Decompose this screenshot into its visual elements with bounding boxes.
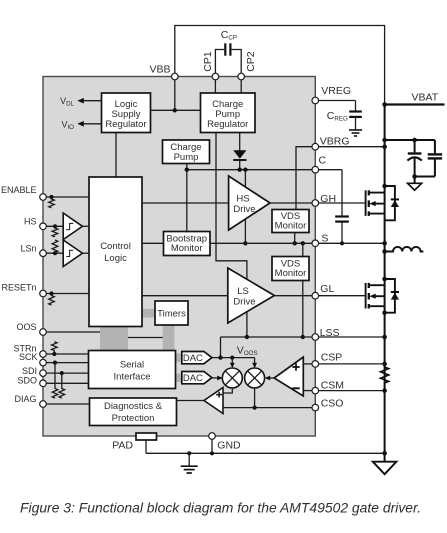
pin DIAG — [40, 401, 47, 408]
buffer HS — [63, 213, 82, 240]
svg-text:Control: Control — [100, 241, 131, 252]
svg-text:C: C — [319, 154, 327, 166]
pin OOS — [40, 329, 47, 336]
svg-text:Timers: Timers — [157, 309, 186, 320]
svg-text:Monitor: Monitor — [275, 268, 307, 279]
wire buffer HS to control logic — [83, 225, 90, 227]
pin SCK — [40, 359, 47, 366]
svg-text:CP2: CP2 — [245, 51, 257, 72]
pin LSS — [312, 334, 319, 341]
wire A1 plus input — [303, 363, 312, 365]
wire SDI — [46, 371, 88, 375]
mixer M2 — [245, 368, 265, 388]
DAC D2 — [182, 372, 212, 385]
pin C — [312, 166, 319, 173]
buffer LSn — [63, 240, 82, 267]
wire VDS-monitor1 to S — [294, 233, 296, 244]
wire HS drive to GH — [270, 202, 312, 204]
wire VBRG external — [319, 144, 387, 149]
wire LSn input — [46, 251, 63, 255]
svg-text:LSn: LSn — [20, 243, 36, 253]
wire VBB internal — [151, 80, 201, 113]
pin LSn — [40, 250, 47, 257]
svg-text:DAC: DAC — [183, 353, 203, 364]
svg-text:CSO: CSO — [321, 398, 344, 410]
pin GL — [312, 292, 319, 299]
svg-text:Regulator: Regulator — [207, 119, 248, 130]
wire mixer2 out — [254, 388, 256, 408]
box VDS monitor 1 — [272, 210, 309, 233]
wire CSP external — [319, 362, 387, 367]
inductor L1 — [382, 247, 423, 254]
svg-text:Monitor: Monitor — [275, 221, 307, 232]
wire LSS external — [319, 335, 387, 340]
svg-text:CSP: CSP — [321, 352, 343, 364]
wire buffer LSn to control logic — [83, 252, 90, 254]
pin CSP — [312, 361, 319, 368]
pin CSO — [312, 404, 319, 411]
wire bulk caps top — [382, 138, 435, 143]
transistor Q2 LS MOSFET — [366, 277, 387, 315]
ground main — [373, 453, 397, 474]
wire A2 out to diagnostics — [177, 400, 205, 402]
wire ENABLE — [46, 195, 89, 199]
wire C node line — [185, 164, 313, 172]
ground CREG — [349, 130, 362, 136]
transistor Q1 HS MOSFET — [366, 184, 387, 216]
svg-text:VBRG: VBRG — [320, 136, 350, 148]
box timers — [155, 301, 188, 325]
pin HS — [40, 223, 47, 230]
svg-text:Logic: Logic — [104, 253, 127, 264]
pin CP2 — [238, 73, 245, 80]
pin GH — [312, 200, 319, 207]
svg-text:Monitor: Monitor — [171, 243, 203, 254]
svg-text:ENABLE: ENABLE — [1, 185, 37, 195]
wire VOOS to mixer1 — [230, 358, 235, 369]
resistor ENABLE pull — [49, 197, 55, 208]
svg-text:OOS: OOS — [16, 322, 36, 332]
svg-text:Diagnostics &: Diagnostics & — [104, 401, 163, 412]
svg-text:PAD: PAD — [112, 439, 133, 451]
pin S — [312, 240, 319, 247]
svg-text:Protection: Protection — [112, 413, 155, 424]
wire LSS node internal — [221, 336, 313, 338]
wire charge-pump to bootstrap-monitor — [186, 170, 188, 232]
wire VBB top loop — [175, 26, 385, 105]
pin RESETn — [40, 290, 47, 297]
wire control-logic to HS drive — [142, 202, 229, 204]
wire A1 minus input — [303, 390, 312, 392]
capacitor bulk ceramic — [428, 140, 442, 177]
wire CP1 internal — [214, 80, 216, 93]
wire S node internal — [210, 241, 312, 245]
wire HS drive top supply stub — [244, 170, 246, 188]
wire charge-pump-reg to LS drive supply — [216, 133, 247, 280]
svg-text:GND: GND — [217, 440, 241, 452]
DAC D1 — [182, 352, 212, 365]
wire C external — [319, 169, 342, 171]
bus control-logic to timers — [142, 309, 155, 318]
ground bulk caps — [408, 177, 422, 191]
PAD slug — [136, 433, 157, 440]
wire LS drive bottom stub — [245, 312, 249, 339]
wire HS drive bottom stub — [243, 219, 247, 246]
pin SDI — [40, 370, 47, 377]
resistor STRn pull — [52, 342, 58, 354]
box VDS monitor 2 — [272, 257, 309, 281]
wire VOOS node — [212, 356, 255, 360]
capacitor CREG — [349, 101, 362, 130]
wire VBAT — [382, 102, 444, 107]
arrow VDL output — [77, 98, 101, 104]
svg-text:S: S — [321, 233, 328, 245]
wire LSS to VOOS node — [218, 337, 222, 360]
diode D1 — [233, 150, 246, 170]
arrow VIO output — [77, 121, 101, 127]
wire OOS — [46, 331, 100, 333]
box serial interface — [89, 351, 176, 389]
ground PAD — [181, 453, 198, 473]
resistor HS pull — [52, 226, 58, 237]
wire ground bus bottom — [146, 451, 387, 456]
op-amp A1 — [274, 357, 303, 396]
svg-text:LS: LS — [237, 286, 249, 297]
pin VBRG — [312, 143, 319, 150]
wire control-logic to LS drive — [142, 295, 228, 297]
svg-text:Regulator: Regulator — [105, 119, 146, 130]
svg-text:HS: HS — [24, 217, 37, 227]
svg-text:VBAT: VBAT — [412, 91, 439, 103]
svg-text:DAC: DAC — [183, 373, 203, 384]
wire RESETn — [46, 291, 89, 295]
wire S external — [319, 241, 387, 246]
wire VOOS to mixer2 — [252, 358, 257, 369]
svg-text:DIAG: DIAG — [14, 394, 36, 404]
wire DIAG — [46, 403, 89, 405]
box charge pump regulator U-CPR — [201, 93, 256, 133]
pin CP1 — [212, 73, 219, 80]
box control logic — [89, 177, 142, 327]
op-amp A2 — [204, 388, 223, 414]
diode Q1 body — [385, 186, 399, 220]
wire CSO node — [223, 406, 312, 410]
wire DAC2 to mixer1 — [212, 376, 223, 381]
triangle LS drive — [228, 268, 275, 323]
svg-text:CP1: CP1 — [202, 51, 214, 72]
resistor SCK pull — [52, 363, 58, 399]
capacitor CCP — [215, 43, 241, 73]
wire VDS-monitor2 to LSS — [301, 281, 305, 340]
svg-text:Interface: Interface — [114, 372, 151, 383]
resistor LSn pull — [52, 240, 58, 253]
box bootstrap monitor — [164, 232, 211, 256]
mixer M1 — [222, 368, 242, 388]
svg-text:GH: GH — [320, 193, 336, 205]
wire GND pin — [211, 439, 213, 453]
svg-text:CSM: CSM — [321, 380, 344, 392]
svg-text:VREG: VREG — [321, 85, 351, 97]
IC body (gray block) — [43, 77, 315, 437]
svg-text:Serial: Serial — [120, 360, 144, 371]
wire logic-supply to control-logic — [115, 133, 117, 178]
diode Q2 body — [385, 279, 399, 313]
svg-text:LSS: LSS — [320, 327, 340, 339]
bus control-logic to serial-interface — [100, 327, 128, 351]
wire VBRG to VDS-monitor1 — [296, 147, 312, 210]
pin VBB — [172, 73, 179, 80]
wire VREG external — [319, 100, 356, 102]
resistor RESETn pull — [49, 294, 55, 306]
wire control-logic to bootstrap-monitor — [142, 242, 164, 244]
wire VBAT rail vertical — [384, 105, 386, 454]
capacitor bulk electrolytic — [407, 140, 421, 177]
svg-text:VBB: VBB — [149, 63, 170, 75]
pin VREG — [312, 97, 319, 104]
wire mixer1 to A2 — [223, 388, 232, 393]
svg-text:Pump: Pump — [174, 152, 199, 163]
wire STRn — [46, 352, 88, 356]
wire LS drive to GL — [274, 295, 312, 297]
capacitor bootstrap — [335, 170, 349, 246]
bus timers to serial-interface — [163, 325, 175, 351]
box logic supply regulator — [102, 93, 151, 133]
pin ENABLE — [40, 194, 47, 201]
wire CSM external — [319, 388, 387, 393]
wire charge-pump-reg to diode — [239, 133, 241, 151]
wire A1 out to mixer2 — [265, 376, 274, 381]
svg-text:GL: GL — [320, 283, 334, 295]
wire GL external — [319, 295, 366, 297]
wire bulk caps bottom — [412, 174, 435, 179]
pin GND — [209, 433, 216, 440]
svg-text:Figure 3: Functional block dia: Figure 3: Functional block diagram for t… — [20, 501, 421, 516]
wire bus link — [128, 337, 163, 339]
pin STRn — [40, 351, 47, 358]
svg-text:HS: HS — [236, 194, 249, 205]
bus serial-interface to DAC2 — [176, 374, 183, 383]
wire VDS-monitor2 to S — [302, 243, 304, 256]
wire SCK — [46, 361, 88, 365]
bus serial-interface to DAC1 — [176, 354, 183, 363]
wire HS input — [46, 224, 63, 228]
svg-text:SCK: SCK — [19, 352, 38, 362]
resistor SDI pull — [59, 373, 65, 398]
wire CP2 internal — [240, 80, 242, 93]
wire GH external — [319, 202, 366, 204]
box diagnostics and protection — [90, 398, 177, 426]
svg-text:Drive: Drive — [233, 297, 255, 308]
box charge pump — [163, 140, 210, 164]
svg-text:RESETn: RESETn — [1, 282, 36, 292]
svg-text:Drive: Drive — [233, 204, 255, 215]
resistor sense — [381, 364, 389, 391]
triangle HS drive — [229, 176, 270, 230]
wire PAD down — [145, 440, 147, 453]
pin SDO — [40, 380, 47, 387]
pin CSM — [312, 387, 319, 394]
svg-text:SDO: SDO — [17, 376, 37, 386]
wire SDO — [46, 382, 88, 384]
